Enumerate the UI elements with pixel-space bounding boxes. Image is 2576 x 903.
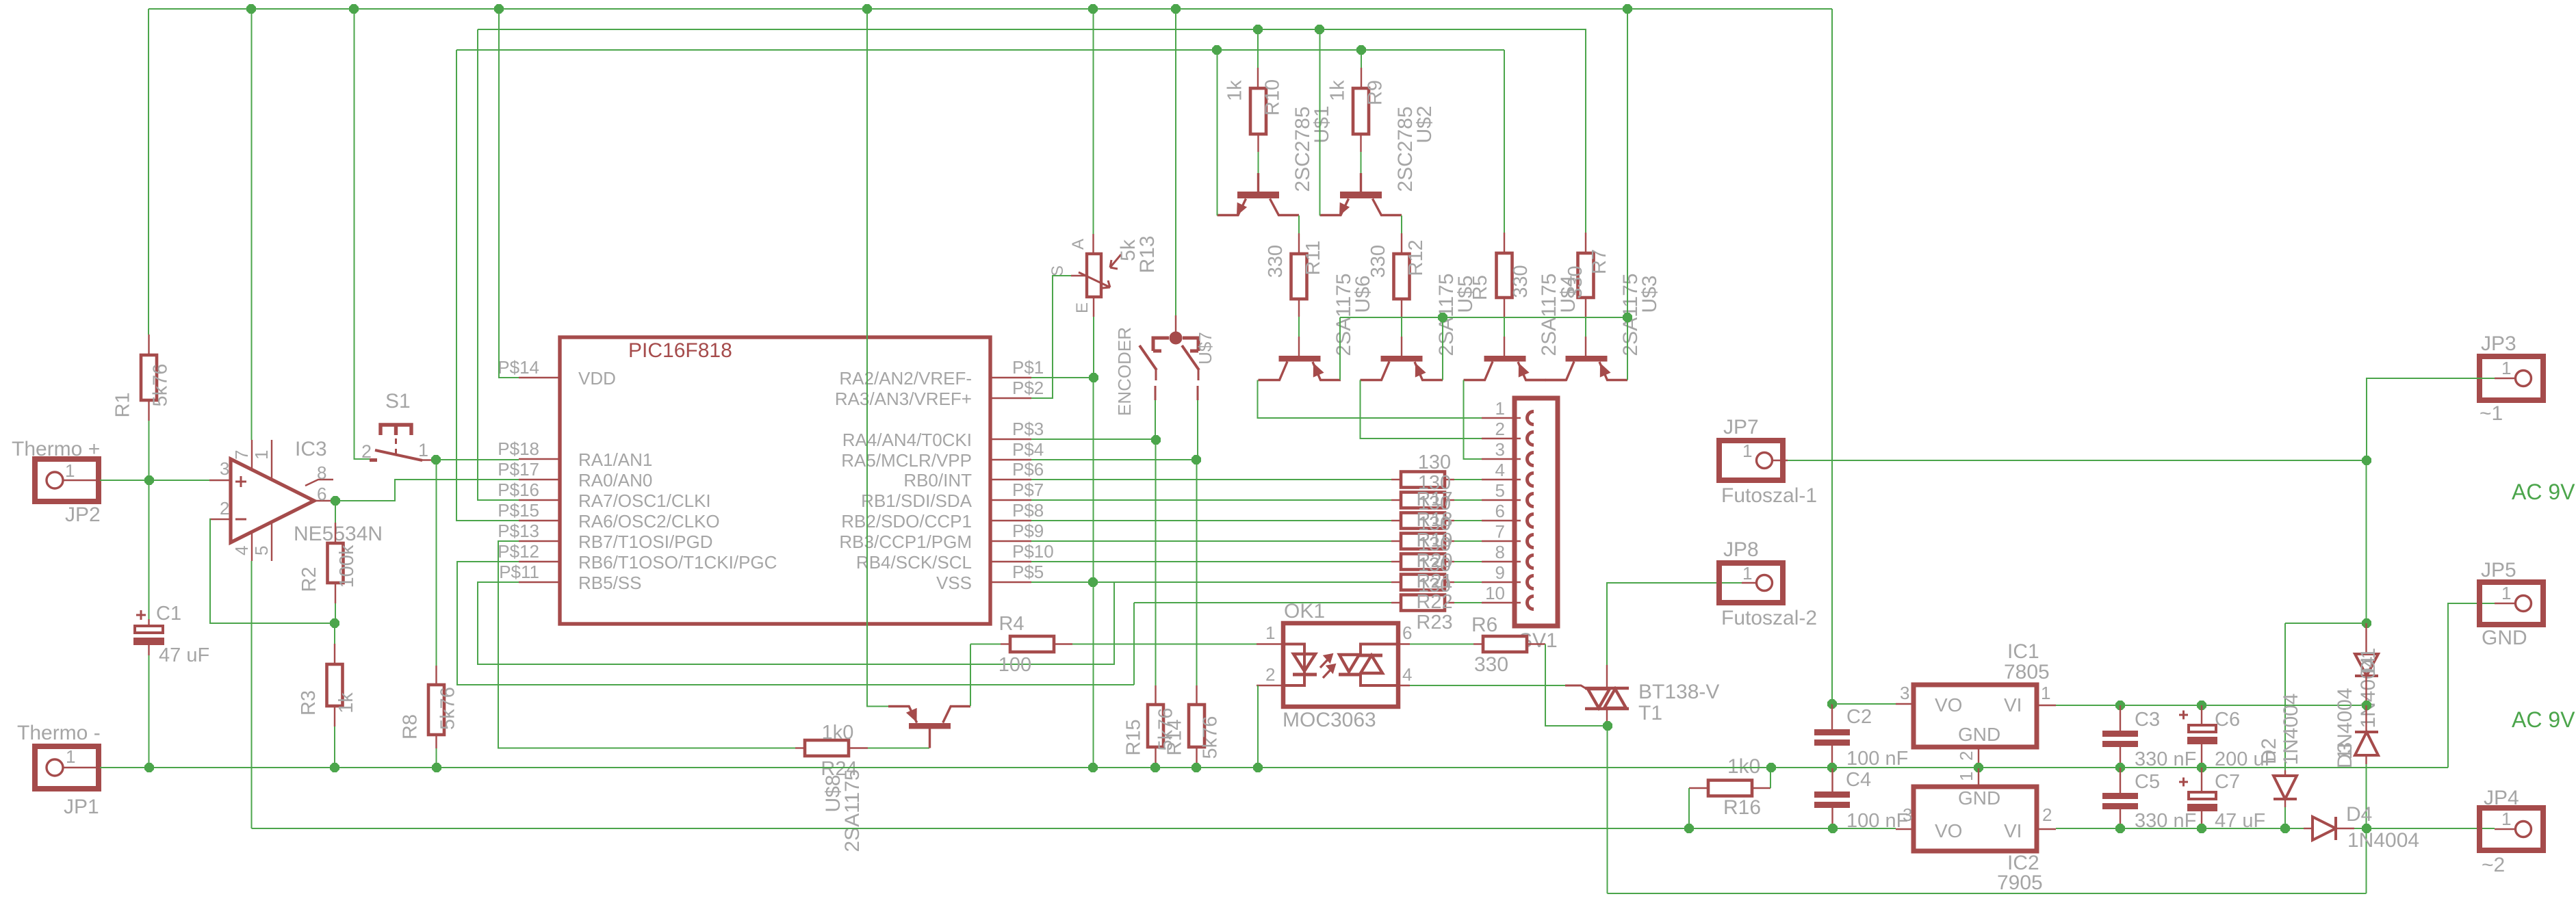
svg-text:P$13: P$13 xyxy=(498,521,539,541)
svg-text:8: 8 xyxy=(317,462,326,483)
wire JP7 to AC1 node xyxy=(1788,460,2367,461)
svg-text:C4: C4 xyxy=(1846,769,1871,791)
junction GND / OK1-2 xyxy=(1253,763,1263,772)
pin IC3 -in stub xyxy=(209,519,231,520)
pin R4 left lead xyxy=(1001,643,1010,644)
pin IC2 GND stub xyxy=(1978,768,1979,787)
pin R11 top lead xyxy=(1298,233,1300,254)
wire encoder A to RA4 xyxy=(1031,400,1156,440)
junction RA6 / R9 xyxy=(1356,45,1366,55)
svg-text:JP5: JP5 xyxy=(2481,559,2516,581)
pin R4 right lead xyxy=(1054,643,1072,644)
resistor R23 130 xyxy=(1401,595,1445,611)
pin R18 right lead xyxy=(1445,499,1454,501)
pin IC3-5 stub xyxy=(271,522,272,561)
pin SV1-7 hook xyxy=(1528,535,1534,548)
junction RA2-VSS row xyxy=(1088,577,1098,587)
pin R9 top lead xyxy=(1361,68,1362,88)
junction V- / C4 xyxy=(1828,824,1838,833)
svg-text:330: 330 xyxy=(1265,245,1287,278)
junction T1 MT1 node xyxy=(1603,721,1612,731)
svg-text:10: 10 xyxy=(1485,583,1505,603)
junction +V / S1 xyxy=(349,4,359,14)
wire +V to encoder common xyxy=(1175,9,1176,315)
wire RB5 to VSS jog xyxy=(478,582,1114,664)
connector JP5 GND xyxy=(2480,559,2543,649)
pin JP3-1 lead xyxy=(2495,378,2515,379)
pin U$3 base lead xyxy=(1585,337,1586,356)
svg-text:R16: R16 xyxy=(1723,796,1761,819)
pin R19 left lead xyxy=(1391,520,1401,521)
svg-text:JP7: JP7 xyxy=(1723,416,1759,439)
pin R6 left lead xyxy=(1473,643,1483,644)
svg-text:7805: 7805 xyxy=(2004,661,2050,683)
pin JP1-1 lead xyxy=(63,767,100,768)
pin IC3-4 stub xyxy=(251,532,253,561)
svg-text:RA5/MCLR/VPP: RA5/MCLR/VPP xyxy=(841,450,972,471)
svg-text:7: 7 xyxy=(1495,521,1505,542)
junction GND / R15 xyxy=(1150,763,1160,772)
svg-text:130: 130 xyxy=(1418,451,1451,473)
svg-text:RA1/AN1: RA1/AN1 xyxy=(578,449,652,470)
op-amp plus sign xyxy=(235,476,246,487)
pin OK1-6 stub xyxy=(1398,643,1410,644)
svg-text:C1: C1 xyxy=(156,603,181,625)
wire GND rail to JP5 xyxy=(2448,603,2495,768)
pin R19 right lead xyxy=(1445,520,1454,521)
pin SV1-6 hook xyxy=(1528,514,1534,527)
svg-text:R9: R9 xyxy=(1365,80,1387,105)
pin R24 right lead xyxy=(849,747,868,748)
rotary encoder U$7 xyxy=(1139,332,1199,401)
svg-text:AC 9V: AC 9V xyxy=(2512,480,2575,504)
capacitor C3 330nF xyxy=(2102,709,2196,770)
pin R8 bottom lead xyxy=(435,735,437,748)
pin PIC RA5/MCLR/VPP stub right xyxy=(990,459,1031,460)
svg-text:1k0: 1k0 xyxy=(822,722,854,744)
OK1 LED xyxy=(1283,644,1317,686)
resistor R8 5k76 xyxy=(400,685,459,740)
wire RA6 to R9 xyxy=(1361,50,1362,68)
OK1 light arrows xyxy=(1320,655,1335,678)
resistor R1 5k76 xyxy=(112,355,172,418)
junction V-9 / D3 D4 xyxy=(2362,824,2371,833)
pin R10 bottom lead xyxy=(1257,134,1259,152)
pin OK1-4 stub xyxy=(1398,685,1410,686)
svg-text:P$14: P$14 xyxy=(498,357,539,378)
capacitor C2 100nF xyxy=(1814,706,1908,770)
pin C6 bottom lead xyxy=(2201,744,2202,768)
svg-text:AC 9V: AC 9V xyxy=(2512,707,2575,732)
resistor R19 130 xyxy=(1401,513,1445,529)
svg-text:100: 100 xyxy=(999,654,1031,676)
svg-text:IC1: IC1 xyxy=(2007,640,2039,663)
svg-text:D1: D1 xyxy=(2357,648,2380,674)
pin R14 bottom lead xyxy=(1196,747,1197,768)
svg-text:U$4: U$4 xyxy=(1557,275,1580,313)
pin SV1-5 stub xyxy=(1482,499,1521,501)
svg-text:U$7: U$7 xyxy=(1195,332,1215,365)
svg-text:130: 130 xyxy=(1418,513,1451,535)
wire R11 to U$6 base xyxy=(1298,317,1300,337)
wire net RA7 rail B xyxy=(478,29,1586,30)
svg-text:PIC16F818: PIC16F818 xyxy=(628,339,732,362)
svg-text:RA2/AN2/VREF-: RA2/AN2/VREF- xyxy=(839,368,972,389)
pin R17 left lead xyxy=(1391,479,1401,480)
svg-text:MOC3063: MOC3063 xyxy=(1283,709,1376,731)
wire net RA6 rail C xyxy=(456,49,1504,51)
svg-text:R1: R1 xyxy=(112,392,134,417)
wire encoder B to RA5 xyxy=(1031,400,1198,460)
pin C1 bottom lead xyxy=(148,645,149,655)
capacitor C5 330nF xyxy=(2102,771,2196,832)
diode D4 1N4004 xyxy=(2313,817,2336,840)
svg-text:Thermo -: Thermo - xyxy=(17,722,101,744)
wire R16 right up to GND xyxy=(1770,768,1771,788)
pin SV1-1 stub xyxy=(1482,417,1521,419)
resistor R14 5k76 xyxy=(1164,705,1222,759)
svg-text:D2: D2 xyxy=(2258,738,2280,764)
wire R10 to U$1 base xyxy=(1258,152,1259,173)
pin R12 top lead xyxy=(1401,233,1402,254)
svg-text:VDD: VDD xyxy=(578,368,616,389)
junction GND / R14 xyxy=(1192,763,1201,772)
wire R6 to T1 MT1 xyxy=(1545,644,1608,727)
wire PIC RB3 to R20 xyxy=(1031,540,1391,542)
pin R21 right lead xyxy=(1445,561,1454,562)
wire S1 node down to R8 xyxy=(436,460,437,666)
wire Thermo+ node to C1 xyxy=(149,480,150,619)
resistor R20 130 xyxy=(1401,534,1445,549)
wire VO node to IC1 xyxy=(1832,703,1896,705)
wire R17 to SV1 xyxy=(1454,479,1482,480)
pin D3 cathode lead xyxy=(2365,705,2367,732)
svg-text:1: 1 xyxy=(2041,683,2050,703)
wire R22 to SV1 xyxy=(1454,581,1482,583)
svg-text:C3: C3 xyxy=(2135,709,2160,731)
pin encoder common lead xyxy=(1175,315,1176,332)
pin D4 anode lead xyxy=(2304,828,2313,829)
wire RA7 to U$2 emitter xyxy=(1319,29,1321,215)
wire OK1-2 down to GND xyxy=(1257,685,1259,768)
svg-text:P$17: P$17 xyxy=(498,459,539,480)
resistor R7 330 xyxy=(1564,249,1610,299)
wire IC1 VI to D node xyxy=(2056,705,2367,706)
pin R7 bottom lead xyxy=(1585,298,1586,318)
wire IC3 pin4 to V- rail xyxy=(251,561,253,828)
svg-text:P$7: P$7 xyxy=(1012,480,1044,500)
svg-text:P$4: P$4 xyxy=(1012,439,1044,460)
diode D2 1N4004 xyxy=(2274,776,2297,799)
svg-text:1: 1 xyxy=(66,746,75,767)
OK1 triac xyxy=(1339,644,1398,686)
svg-text:~1: ~1 xyxy=(2480,402,2503,425)
svg-text:P$10: P$10 xyxy=(1012,541,1054,562)
pin R22 right lead xyxy=(1445,581,1454,583)
svg-text:R11: R11 xyxy=(1302,240,1324,275)
regulator IC2 7905 box xyxy=(1914,787,2037,851)
svg-text:130: 130 xyxy=(1418,493,1451,514)
wire OK1-6 to R6 xyxy=(1410,644,1473,645)
svg-text:330 nF: 330 nF xyxy=(2135,748,2196,770)
svg-text:GND: GND xyxy=(1958,787,2000,809)
wire R24 to U$8 base xyxy=(868,748,929,749)
svg-text:130: 130 xyxy=(1418,554,1451,576)
svg-text:C7: C7 xyxy=(2215,771,2240,793)
junction V-9 / C7 xyxy=(2197,824,2206,833)
pin PIC RB4/SCK/SCL stub right xyxy=(990,561,1031,562)
wire R18 to SV1 xyxy=(1454,499,1482,501)
svg-text:P$9: P$9 xyxy=(1012,521,1044,541)
capacitor C1 47uF xyxy=(133,603,209,666)
resistor R17 130 xyxy=(1401,472,1445,488)
transistor U$3 2SA1175 xyxy=(1545,356,1628,380)
junction GND / R16 xyxy=(1766,763,1776,772)
op-amp minus sign xyxy=(235,519,246,521)
junction RA6 / U$1 emitter xyxy=(1212,45,1222,55)
svg-text:R10: R10 xyxy=(1262,79,1284,116)
transistor U$1 2SC2785 xyxy=(1218,173,1300,216)
wire U$6 collector to SV1-1 xyxy=(1258,380,1482,419)
triac T1 BT138-V xyxy=(1565,685,1629,709)
wire RA7 rail to P$16 xyxy=(478,29,519,500)
svg-text:1k: 1k xyxy=(1327,80,1349,101)
potentiometer R13 5k xyxy=(1079,254,1121,297)
svg-text:U$6: U$6 xyxy=(1352,275,1374,313)
pin PIC RB7/T1OSI/PGD stub xyxy=(519,540,560,542)
svg-text:RA4/AN4/T0CKI: RA4/AN4/T0CKI xyxy=(842,430,972,450)
pin R5 top lead xyxy=(1504,233,1505,253)
svg-text:3: 3 xyxy=(1900,683,1909,703)
svg-text:R13: R13 xyxy=(1136,235,1159,273)
svg-text:VSS: VSS xyxy=(936,573,972,593)
pin R13 S lead xyxy=(1071,275,1087,276)
svg-text:1k: 1k xyxy=(1224,80,1246,101)
svg-text:130: 130 xyxy=(1418,534,1451,555)
svg-text:330: 330 xyxy=(1367,245,1389,278)
svg-text:E: E xyxy=(1073,302,1092,313)
wire S1 to PIC RA1 xyxy=(436,459,519,460)
wire RA5 node down to R14 xyxy=(1196,460,1198,685)
pin R18 left lead xyxy=(1391,499,1401,501)
node feedback junction xyxy=(330,618,339,628)
junction AC1 / D1 D2 xyxy=(2362,618,2371,628)
wire U$8 collector to R4 xyxy=(970,644,971,707)
svg-text:GND: GND xyxy=(2482,627,2527,649)
wire R23 left wire xyxy=(1134,602,1391,603)
svg-text:P$15: P$15 xyxy=(498,500,539,521)
pin D1 cathode lead xyxy=(2365,676,2367,705)
pin R3 top lead xyxy=(334,644,335,664)
svg-text:R2: R2 xyxy=(298,566,320,592)
junction GND / C6 C7 xyxy=(2197,763,2206,772)
junction GND / R3 xyxy=(330,763,339,772)
wire R8 to GND rail xyxy=(436,748,437,768)
junction VI+ / C3 xyxy=(2115,701,2125,710)
pin R16 left lead xyxy=(1689,787,1708,789)
pin SV1-4 hook xyxy=(1528,473,1534,486)
wire D2 to V-9 rail xyxy=(2284,807,2286,828)
wire R13 E to RA2 node xyxy=(1093,317,1094,378)
pin U$4 base lead xyxy=(1504,337,1505,356)
wire R20 to SV1 xyxy=(1454,540,1482,542)
wire U$6 emitter up xyxy=(1339,317,1341,380)
wire D4 to JP4 xyxy=(2354,828,2495,829)
pin SV1-2 hook xyxy=(1528,432,1534,445)
pin PIC VDD stub xyxy=(519,377,560,378)
svg-text:2: 2 xyxy=(2042,804,2052,825)
svg-text:VI: VI xyxy=(2004,694,2022,716)
pin PIC RB2/SDO/CCP1 stub right xyxy=(990,520,1031,521)
junction +V / U$3 emitter xyxy=(1623,4,1632,14)
svg-text:9: 9 xyxy=(1495,562,1505,583)
wire C1 bottom to GND rail xyxy=(149,655,150,768)
pin R7 top lead xyxy=(1585,233,1586,253)
junction +V / U$8 emitter xyxy=(862,4,872,14)
svg-text:VI: VI xyxy=(2004,820,2022,841)
svg-text:100 nF: 100 nF xyxy=(1846,748,1908,770)
wire collector riser to R4 xyxy=(970,644,1001,645)
pin PIC RB0/INT stub right xyxy=(990,479,1031,480)
wire RB6 to R23 route xyxy=(457,562,1134,685)
connector JP8 Futoszal-2 xyxy=(1719,538,1817,629)
svg-text:RB3/CCP1/PGM: RB3/CCP1/PGM xyxy=(839,532,972,552)
resistor R22 130 xyxy=(1401,575,1445,590)
wire D3 to V-9 rail xyxy=(2366,764,2367,828)
wire U$5 collector to SV1-2 xyxy=(1361,380,1482,439)
wire R9 to U$2 base xyxy=(1361,152,1362,173)
wire D2 branch down xyxy=(2284,623,2286,770)
pin R21 left lead xyxy=(1391,561,1401,562)
svg-text:JP8: JP8 xyxy=(1723,538,1759,561)
wire +V to R1 top xyxy=(148,9,149,335)
wire PIC RB4 to R21 xyxy=(1031,561,1391,562)
pin PIC RA6/OSC2/CLKO stub xyxy=(519,520,560,521)
junction S1-1 / RA1 / R8 xyxy=(431,455,441,464)
pin PIC RA3/AN3/VREF+ stub right xyxy=(990,397,1031,399)
svg-text:7: 7 xyxy=(231,450,252,460)
pin R24 left lead xyxy=(795,747,805,748)
pin PIC RA1/AN1 stub xyxy=(519,458,560,460)
resistor R6 330 xyxy=(1483,636,1527,652)
wire net +V rail A top xyxy=(149,8,1832,10)
connector JP4 AC~2 xyxy=(2480,787,2543,876)
pin C7 top lead xyxy=(2201,768,2202,792)
svg-text:OK1: OK1 xyxy=(1284,600,1325,623)
junction +V / encoder common xyxy=(1171,4,1181,14)
wire VSS row to R22 xyxy=(1031,581,1391,583)
wire R16 left down xyxy=(1688,788,1690,828)
wire rail3 MT1 to AC2 xyxy=(1608,893,2367,894)
junction GND / C2 C4 xyxy=(1827,763,1837,772)
pin IC3-1 stub xyxy=(271,440,272,480)
pin OK1-2 stub xyxy=(1257,685,1283,686)
svg-text:5: 5 xyxy=(1495,480,1505,501)
wire RA4 node down to R15 xyxy=(1155,440,1157,685)
connector JP7 Futoszal-1 xyxy=(1719,416,1817,507)
pin D3 anode lead xyxy=(2365,755,2367,764)
wire OK1-4 to T1 gate xyxy=(1410,685,1565,686)
svg-text:Futoszal-2: Futoszal-2 xyxy=(1721,607,1817,629)
svg-text:5k76: 5k76 xyxy=(437,687,459,730)
svg-text:D4: D4 xyxy=(2346,803,2372,826)
pin C3 top lead xyxy=(2120,705,2121,731)
junction RA2 / R13-E xyxy=(1089,373,1098,382)
junction RA4 node xyxy=(1151,435,1161,445)
svg-text:1N4004: 1N4004 xyxy=(2280,693,2302,765)
svg-text:5k76: 5k76 xyxy=(1200,716,1222,759)
pin C2 bottom lead xyxy=(1831,746,1833,768)
svg-text:ENCODER: ENCODER xyxy=(1114,327,1135,416)
svg-text:330 nF: 330 nF xyxy=(2135,810,2196,832)
svg-text:RA6/OSC2/CLKO: RA6/OSC2/CLKO xyxy=(578,511,720,532)
junction GND / C1 xyxy=(144,763,154,772)
wire PIC P$1 to node xyxy=(1031,377,1094,378)
pin SV1-9 hook xyxy=(1528,576,1534,589)
pin D2 anode lead xyxy=(2284,770,2286,776)
pin R15 top lead xyxy=(1155,685,1156,705)
svg-text:~2: ~2 xyxy=(2482,854,2505,876)
svg-text:1k: 1k xyxy=(335,692,357,714)
pin R1 top lead xyxy=(148,335,149,355)
svg-text:RB6/T1OSO/T1CKI/PGC: RB6/T1OSO/T1CKI/PGC xyxy=(578,552,777,573)
svg-text:GND: GND xyxy=(1958,724,2000,745)
wire R12 to U$5 base xyxy=(1401,317,1402,337)
wire PIC RB0 to R17 xyxy=(1031,479,1391,480)
pin R11 bottom lead xyxy=(1298,299,1300,317)
svg-text:100k: 100k xyxy=(336,545,358,588)
wire PIC RB1 to R18 xyxy=(1031,499,1391,501)
wire R21 to SV1 xyxy=(1454,561,1482,562)
pin R6 right lead xyxy=(1526,643,1545,644)
pin R9 bottom lead xyxy=(1360,134,1361,152)
ic PIC16F818 box xyxy=(560,337,990,624)
svg-text:RA3/AN3/VREF+: RA3/AN3/VREF+ xyxy=(835,389,972,409)
pin R22 left lead xyxy=(1391,581,1401,583)
pin R5 bottom lead xyxy=(1504,298,1505,318)
wire +V to U$8 emitter xyxy=(867,9,888,707)
junction +V / VDD xyxy=(494,4,504,14)
wire +V to S1 contact2 xyxy=(355,9,370,459)
pin PIC RB3/CCP1/PGM stub right xyxy=(990,540,1031,542)
pin R23 left lead xyxy=(1391,602,1401,603)
pin R3 bottom lead xyxy=(334,706,335,727)
svg-text:U$3: U$3 xyxy=(1638,275,1661,313)
svg-text:Thermo +: Thermo + xyxy=(12,438,100,460)
pin C4 bottom lead xyxy=(1831,808,1833,828)
svg-text:P$12: P$12 xyxy=(498,541,539,562)
pin OK1-1 stub xyxy=(1257,643,1283,644)
wire AC2 node down to rail3 xyxy=(2366,828,2367,893)
wire feedback to -in xyxy=(209,519,335,623)
pin IC2 VI stub xyxy=(2037,828,2056,830)
pin PIC RA7/OSC1/CLKI stub xyxy=(519,499,560,501)
pin R12 bottom lead xyxy=(1401,299,1402,317)
svg-text:6: 6 xyxy=(317,484,326,504)
svg-text:R8: R8 xyxy=(400,714,422,740)
wire RA7 to R10 xyxy=(1257,29,1259,68)
wire +V rail down right side xyxy=(1831,9,1833,704)
svg-text:1: 1 xyxy=(65,460,75,481)
svg-text:7905: 7905 xyxy=(1997,872,2043,894)
junction RA7 / U$2 emitter xyxy=(1315,25,1324,34)
pin R20 right lead xyxy=(1445,540,1454,542)
pin U$6 base lead xyxy=(1298,337,1300,356)
svg-text:3: 3 xyxy=(220,458,229,479)
svg-text:1: 1 xyxy=(1742,441,1752,461)
svg-text:JP4: JP4 xyxy=(2484,787,2519,809)
svg-text:1: 1 xyxy=(2501,809,2511,829)
